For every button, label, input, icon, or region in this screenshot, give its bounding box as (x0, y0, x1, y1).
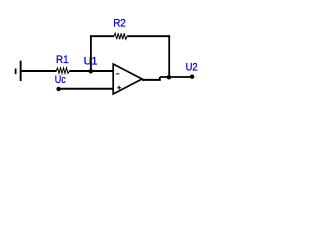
wire top left (corner to R2) (90, 35, 114, 37)
svg-text:R2: R2 (113, 18, 126, 30)
svg-text:1: 1 (91, 56, 97, 68)
wire right vertical down to output node (168, 35, 170, 77)
op-amp minus sign (116, 73, 119, 74)
wire op-amp output stub (142, 79, 161, 81)
wire output node to U2 terminal (160, 76, 192, 78)
wire battery to R1 (22, 70, 57, 72)
resistor R2 (114, 33, 127, 39)
op-amp U1 triangle (113, 64, 142, 94)
wire R2 to right corner (127, 35, 170, 37)
resistor R1 (56, 68, 69, 74)
junction dot output node (167, 75, 172, 80)
battery (voltage source) (15, 61, 22, 81)
junction dot U1 (89, 69, 94, 74)
terminal dot Uc (56, 87, 60, 91)
svg-text:U2: U2 (186, 62, 198, 74)
svg-text:Uc: Uc (55, 74, 66, 86)
olive overlap of U1 text and wire (89, 58, 90, 65)
wire output jog up (159, 77, 161, 81)
terminal dot U2 (190, 75, 194, 79)
wire U1 up to feedback (90, 35, 92, 71)
svg-text:R1: R1 (56, 54, 69, 66)
wire R1 to op-amp inverting input (69, 70, 113, 72)
wire Uc terminal to op-amp non-inverting input (60, 88, 113, 90)
op-amp plus sign (117, 86, 121, 90)
